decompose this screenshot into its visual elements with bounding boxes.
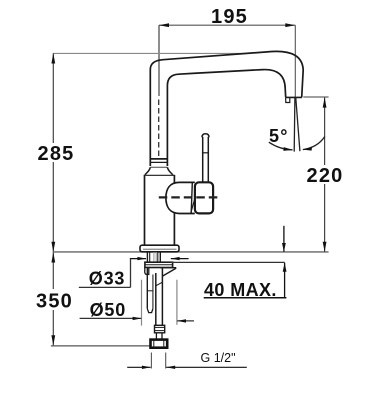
hose collar <box>155 325 165 333</box>
bracket left hook <box>145 268 149 275</box>
bracket right funnel top <box>160 267 176 269</box>
base flange <box>140 245 179 252</box>
5 degree arc right segment <box>303 137 325 150</box>
white mask behind 350 <box>37 289 71 310</box>
lever rod left edge <box>202 137 204 183</box>
svg-text:Ø50: Ø50 <box>90 300 126 320</box>
body shoulder left flare <box>145 167 150 175</box>
left hose right edge <box>152 275 154 309</box>
dimension 285 bottom arrow <box>51 242 55 252</box>
shank middle gray lines <box>153 252 155 262</box>
nut inner line <box>145 264 173 266</box>
spout outer contour <box>150 51 303 166</box>
white mask behind 220 <box>306 165 343 184</box>
G 1/2 left arrow <box>127 366 150 368</box>
dimension 220 top extension line <box>303 96 328 98</box>
diameter 50 right arrow <box>177 320 194 322</box>
40 MAX down arrow line <box>283 226 285 252</box>
dimension 285 vertical line <box>52 53 54 252</box>
40 MAX up arrow line <box>284 263 286 299</box>
lever base <box>195 182 213 213</box>
svg-text:40 MAX.: 40 MAX. <box>204 280 277 300</box>
dimension 195 right arrow <box>285 23 295 27</box>
dimension 195 left arrow <box>159 23 169 27</box>
svg-text:350: 350 <box>36 291 73 313</box>
main hose diagonal joint <box>156 282 163 286</box>
lever rod cap <box>202 134 209 138</box>
shank right inner line <box>157 252 159 262</box>
shank left outer line <box>146 252 148 262</box>
shank right outer line <box>159 252 161 262</box>
svg-text:G 1/2": G 1/2" <box>201 351 236 365</box>
white mask behind 285 <box>38 143 73 162</box>
lever rod joint tick <box>203 152 209 154</box>
dimension 350 bottom arrow <box>51 335 55 345</box>
dimension 220 bottom arrow <box>323 242 327 252</box>
neck ring line 2 <box>150 161 167 163</box>
diameter 33 left arrow <box>130 258 146 260</box>
diameter 50 left arrow with leader <box>80 317 142 319</box>
fitting facet lines <box>153 340 155 348</box>
mounting nut <box>145 262 173 267</box>
riser dashed centerline <box>158 100 160 159</box>
dimension 350 top arrow <box>51 252 55 262</box>
countertop line <box>53 251 328 253</box>
dimension 285 top extension line <box>53 52 250 54</box>
5 degree tilted stream line <box>296 98 300 151</box>
shank left inner line <box>149 252 151 262</box>
main hose left edge <box>155 273 157 325</box>
body left edge <box>144 175 146 246</box>
left hose tick <box>147 290 153 292</box>
svg-text:285: 285 <box>38 143 75 165</box>
dimension 195 line <box>159 24 295 26</box>
G 1/2 right arrow <box>166 366 247 368</box>
handle boss divider <box>191 183 192 214</box>
fitting neck <box>155 333 157 340</box>
G 1/2 fitting <box>151 340 168 348</box>
lever rod right edge <box>207 137 209 183</box>
body top line <box>145 174 174 176</box>
dimension 220 vertical line <box>324 97 326 252</box>
G 1/2 left extension line <box>150 353 152 369</box>
dimension 195 left extension line <box>158 25 160 96</box>
svg-text:5°: 5° <box>269 126 289 146</box>
dimension 350 bottom extension line <box>51 345 150 347</box>
40 MAX reference line <box>171 261 285 263</box>
diameter 33 leader vertical <box>130 259 132 288</box>
spout inner contour <box>167 70 285 166</box>
G 1/2 right extension line <box>165 353 167 369</box>
diameter 33 leader underline <box>79 286 131 288</box>
dimension 220 top arrow <box>323 97 327 107</box>
neck ring line 3 <box>150 166 167 168</box>
5 degree reference line vertical <box>293 98 296 152</box>
dimension 350 vertical line <box>52 252 54 346</box>
hose collar lines <box>155 326 165 328</box>
handle centerline dash-dot <box>159 196 218 198</box>
left hose left edge <box>146 268 148 309</box>
5 degree arc left segment <box>269 142 293 150</box>
svg-text:220: 220 <box>307 165 344 187</box>
diameter 50 right extension line <box>176 280 178 325</box>
handle boss diagonal detail <box>191 200 195 213</box>
40 MAX underline <box>204 297 287 299</box>
body shoulder right flare <box>167 167 172 175</box>
spout outlet face <box>286 96 302 98</box>
svg-text:Ø33: Ø33 <box>89 269 125 289</box>
left hose taper end <box>147 309 153 313</box>
dimension 285 top arrow <box>51 53 55 63</box>
svg-text:195: 195 <box>211 6 248 28</box>
neck ring line 1 <box>150 158 167 160</box>
diameter 33 right arrow <box>171 258 189 260</box>
diameter 50 left extension line <box>141 280 143 326</box>
dimension 195 right extension line <box>294 25 296 97</box>
handle boss <box>166 182 195 213</box>
main hose right edge <box>161 268 163 325</box>
spout aerator step <box>286 98 290 103</box>
bracket right funnel diagonal <box>163 268 177 276</box>
body right edge <box>173 175 175 246</box>
